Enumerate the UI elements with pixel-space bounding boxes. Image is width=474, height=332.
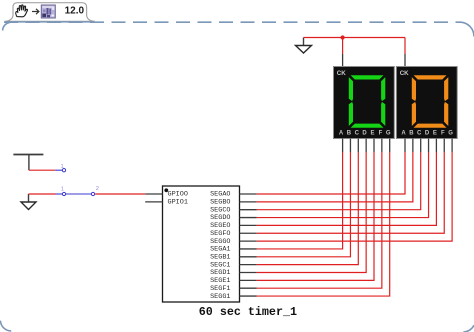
svg-text:A: A (401, 130, 406, 136)
wire SEGF0 to U3 pin F (257, 152, 444, 233)
svg-text:SEGEO: SEGEO (210, 222, 230, 230)
svg-text:C: C (355, 130, 360, 136)
svg-text:D: D (425, 130, 430, 136)
svg-text:GPIO1: GPIO1 (168, 199, 188, 207)
svg-text:2: 2 (96, 186, 99, 192)
svg-text:SEGE1: SEGE1 (210, 277, 230, 285)
hand (pan) cursor icon (16, 5, 28, 17)
svg-text:SEGF1: SEGF1 (210, 285, 230, 293)
wire: rail down to U3 CK pin (404, 38, 406, 55)
U2 (green) bottom pin stubs A-G (343, 139, 390, 153)
wire SEGD1 to U2 pin D (257, 152, 366, 273)
svg-text:SEGA1: SEGA1 (210, 246, 230, 254)
wire SEGA1 to U2 pin A (257, 152, 343, 249)
U3 CK pin stub (404, 54, 406, 67)
toolbar tab bubble (5, 3, 96, 22)
svg-text:G: G (386, 130, 391, 136)
svg-text:GPIOO: GPIOO (168, 191, 188, 199)
wire SEGC1 to U2 pin C (257, 152, 359, 265)
svg-text:B: B (347, 130, 352, 136)
wire SEGB0 to U3 pin B (257, 152, 413, 202)
svg-text:1: 1 (61, 186, 64, 192)
chip thumbnail icon (41, 5, 55, 18)
svg-text:A: A (339, 130, 344, 136)
U1 GPIO0 pin stub (145, 193, 162, 195)
svg-text:G: G (448, 130, 453, 136)
S1 pin 1 lead (55, 169, 62, 171)
svg-text:SEGDO: SEGDO (210, 214, 230, 222)
svg-text:SEGC1: SEGC1 (210, 261, 230, 269)
junction at U2 CK branch (341, 35, 345, 39)
svg-text:CK: CK (337, 70, 346, 77)
S2 lever (closed) (66, 193, 91, 195)
svg-text:F: F (441, 130, 445, 136)
U2 CK pin stub (342, 54, 344, 67)
U1 GPIO1 pin stub (145, 201, 162, 203)
svg-text:E: E (433, 130, 437, 136)
wire SEGD0 to U3 pin D (257, 152, 429, 218)
wire: GND2 to S2 pin 1 (29, 193, 56, 195)
svg-text:B: B (409, 130, 414, 136)
svg-text:SEGG1: SEGG1 (210, 293, 230, 301)
wire: rail down to U2 CK pin (342, 38, 344, 55)
wire: T bar to S1 pin 1 (29, 169, 55, 171)
wire SEGB1 to U2 pin B (257, 152, 351, 257)
wire SEGG1 to U2 pin G (257, 152, 390, 296)
ground GND2 (left) (21, 194, 36, 210)
arrow glyph (32, 9, 39, 14)
svg-text:F: F (379, 130, 383, 136)
svg-text:1: 1 (61, 164, 64, 170)
svg-text:60 sec timer_1: 60 sec timer_1 (199, 305, 297, 319)
wire: S2 pin 2 to U1 GPIO0 (95, 193, 145, 195)
svg-text:SEGGO: SEGGO (210, 238, 230, 246)
wire SEGC0 to U3 pin C (257, 152, 421, 210)
wire SEGE1 to U2 pin E (257, 152, 374, 280)
svg-text:SEGB1: SEGB1 (210, 254, 230, 262)
wire SEGF1 to U2 pin F (257, 152, 382, 288)
S2 pin 1 lead (56, 193, 63, 195)
svg-text:E: E (370, 130, 374, 136)
U3 (orange) bottom pin stubs A-G (405, 139, 452, 153)
ground GND1 (top) (296, 38, 312, 54)
S2 pin 2 terminal (91, 192, 94, 195)
svg-text:SEGD1: SEGD1 (210, 269, 230, 277)
wire SEGG0 to U3 pin G (257, 152, 452, 241)
switch S1 frame contact (T bar) (13, 155, 43, 171)
S1 pin 1 terminal (62, 169, 65, 172)
U1 right pin stubs SEGA0..SEGG1 (240, 194, 257, 296)
svg-text:SEGCO: SEGCO (210, 206, 230, 214)
svg-text:D: D (362, 130, 367, 136)
wire: GND1 to displays CK rail (304, 37, 406, 39)
U1 pin 1 marker dot (164, 188, 168, 192)
svg-text:12.0: 12.0 (65, 6, 85, 17)
svg-text:SEGAO: SEGAO (210, 191, 230, 199)
svg-text:SEGFO: SEGFO (210, 230, 230, 238)
seven-segment display U2 (green) (334, 67, 395, 139)
timer block U1 (163, 186, 240, 302)
seven-segment display U3 (orange) (396, 67, 457, 139)
svg-text:CK: CK (400, 70, 409, 77)
wire SEGE0 to U3 pin E (257, 152, 437, 225)
svg-text:SEGBO: SEGBO (210, 199, 230, 207)
S2 pin 1 terminal (62, 192, 65, 195)
wire SEGA0 to U3 pin A (257, 152, 405, 194)
svg-text:C: C (417, 130, 422, 136)
